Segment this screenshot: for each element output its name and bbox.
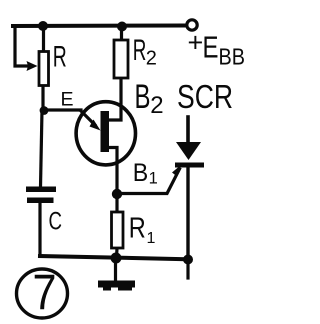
wire B2 lead from R2 to UJT bar [109, 78, 121, 120]
capacitor C top plate [26, 187, 56, 193]
SCR thyristor triangle [176, 142, 201, 160]
resistor R1 [112, 212, 124, 248]
svg-text:R: R [133, 34, 147, 67]
svg-text:R: R [129, 213, 146, 245]
SCR gate arrowhead [172, 165, 182, 177]
wire R1 top lead [115, 194, 118, 212]
node E junction [40, 106, 49, 115]
SCR cathode bar [175, 163, 204, 168]
potentiometer wiper arrowhead [27, 61, 38, 71]
wire gate from node B1 to SCR [119, 169, 180, 194]
UJT base bar [101, 111, 110, 152]
wire bottom rail [40, 256, 190, 259]
svg-text:R: R [53, 40, 67, 73]
svg-text:BB: BB [219, 44, 246, 70]
wire B1 lead from UJT to node B1 [104, 148, 117, 195]
svg-text:+: + [188, 28, 204, 58]
terminal +EBB open circle [187, 20, 197, 30]
svg-text:B: B [133, 159, 149, 187]
wire R1 bottom lead [115, 248, 119, 258]
svg-text:1: 1 [147, 230, 156, 247]
wire R top lead [42, 26, 45, 51]
svg-text:C: C [49, 208, 63, 236]
figure number circle [17, 269, 68, 318]
wire R bottom lead to E node [41, 87, 44, 110]
svg-text:2: 2 [150, 92, 163, 119]
node bottom rail / SCR cathode junction [183, 255, 193, 265]
svg-text:E: E [61, 89, 74, 111]
node top of R2 [117, 22, 127, 32]
capacitor C bottom plate [27, 198, 54, 204]
wire E node down to capacitor [41, 110, 43, 187]
wire top rail [13, 24, 185, 29]
wire stub below SCR cathode node [186, 260, 189, 278]
ground symbol [98, 281, 135, 288]
svg-text:SCR: SCR [177, 78, 233, 115]
node bottom rail / ground junction [111, 253, 122, 264]
resistor R (potentiometer element) [39, 52, 49, 86]
svg-text:B: B [135, 78, 151, 116]
svg-text:E: E [203, 30, 219, 65]
wire SCR cathode lead [186, 166, 189, 258]
svg-text:1: 1 [149, 170, 158, 188]
svg-text:2: 2 [146, 47, 157, 69]
wire R2 top lead [120, 26, 123, 40]
wire pot feedback left side [15, 26, 29, 66]
resistor R2 [114, 40, 128, 78]
node top of R [38, 21, 48, 31]
node B1 junction [112, 189, 122, 199]
UJT emitter arrow [80, 110, 96, 126]
wire emitter horizontal [44, 108, 81, 111]
UJT emitter arrowhead [90, 120, 101, 131]
wire ground stub [114, 258, 117, 281]
transistor Q1 UJT body circle [76, 102, 135, 165]
wire SCR anode lead [186, 117, 190, 143]
svg-text:7: 7 [33, 265, 57, 321]
wire capacitor bottom lead [38, 203, 41, 256]
